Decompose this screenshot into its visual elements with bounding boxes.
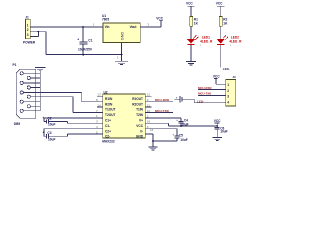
- svg-text:MCU-TXD: MCU-TXD: [155, 109, 170, 113]
- svg-text:P1: P1: [13, 63, 17, 67]
- svg-text:1: 1: [227, 83, 229, 87]
- svg-text:11: 11: [147, 104, 150, 108]
- svg-text:C5: C5: [179, 133, 183, 137]
- svg-text:C2: C2: [47, 116, 51, 120]
- svg-text:U2: U2: [104, 90, 108, 94]
- svg-text:T1OUT: T1OUT: [105, 108, 116, 112]
- svg-text:10uF: 10uF: [181, 123, 188, 127]
- svg-text:3: 3: [227, 95, 229, 99]
- svg-text:10uF/25V: 10uF/25V: [78, 48, 93, 52]
- svg-text:13: 13: [97, 93, 101, 97]
- svg-text:MAX232: MAX232: [102, 140, 115, 144]
- svg-text:1K: 1K: [223, 21, 228, 25]
- svg-text:POWER: POWER: [23, 41, 36, 45]
- svg-text:2: 2: [227, 89, 229, 93]
- svg-text:16: 16: [147, 120, 151, 124]
- svg-text:+: +: [43, 116, 45, 120]
- svg-text:V+: V+: [139, 119, 143, 123]
- svg-text:10: 10: [147, 109, 151, 113]
- svg-text:C4: C4: [184, 118, 188, 122]
- svg-text:10uF: 10uF: [48, 122, 55, 126]
- svg-text:T2OUT: T2OUT: [105, 113, 116, 117]
- svg-text:J3: J3: [232, 75, 236, 79]
- svg-text:R1IN: R1IN: [105, 97, 113, 101]
- svg-text:10uF: 10uF: [220, 129, 227, 133]
- svg-text:3: 3: [27, 33, 29, 37]
- svg-text:T2IN: T2IN: [136, 113, 144, 117]
- svg-text:LED-: LED-: [223, 67, 230, 71]
- svg-text:C2-: C2-: [105, 135, 110, 139]
- svg-text:MCU-TXD: MCU-TXD: [198, 92, 211, 96]
- svg-text:DB9: DB9: [14, 122, 21, 126]
- svg-text:4: 4: [227, 100, 229, 104]
- svg-text:Vout: Vout: [130, 25, 138, 29]
- svg-text:7805: 7805: [102, 18, 109, 22]
- svg-text:+: +: [43, 131, 45, 135]
- svg-text:C1-: C1-: [105, 124, 110, 128]
- svg-text:4LED_R: 4LED_R: [229, 40, 242, 44]
- svg-text:2: 2: [27, 28, 29, 32]
- svg-text:14: 14: [97, 103, 101, 107]
- svg-text:VCC: VCC: [216, 2, 223, 6]
- svg-text:4LED_R: 4LED_R: [200, 40, 213, 44]
- svg-text:T1IN: T1IN: [136, 108, 144, 112]
- svg-text:GND: GND: [136, 135, 144, 139]
- svg-text:1K: 1K: [194, 21, 199, 25]
- svg-text:+: +: [77, 38, 79, 42]
- svg-text:R2OUT: R2OUT: [132, 102, 143, 106]
- svg-text:MCU-RXD: MCU-RXD: [198, 86, 211, 90]
- svg-text:10uF: 10uF: [48, 137, 55, 141]
- svg-text:Vin: Vin: [105, 25, 110, 29]
- svg-text:MCU-RXD: MCU-RXD: [155, 98, 170, 102]
- svg-text:R2IN: R2IN: [105, 102, 113, 106]
- svg-text:VCC: VCC: [186, 2, 193, 6]
- svg-text:VCC: VCC: [213, 74, 220, 78]
- svg-text:1: 1: [27, 24, 29, 28]
- svg-text:C1+: C1+: [105, 119, 111, 123]
- svg-text:J1: J1: [25, 15, 29, 19]
- svg-text:V-: V-: [140, 129, 143, 133]
- svg-text:GND: GND: [120, 32, 124, 41]
- svg-text:15: 15: [150, 128, 154, 132]
- svg-text:12: 12: [147, 93, 151, 97]
- svg-text:LED-: LED-: [197, 99, 204, 103]
- svg-text:R1OUT: R1OUT: [132, 97, 143, 101]
- svg-text:C3: C3: [47, 131, 51, 135]
- svg-text:C1: C1: [88, 39, 92, 43]
- svg-text:10uF: 10uF: [180, 138, 187, 142]
- svg-text:VCC: VCC: [156, 16, 163, 20]
- svg-text:VCC: VCC: [214, 119, 221, 123]
- svg-text:VCC: VCC: [136, 124, 143, 128]
- svg-text:C2+: C2+: [105, 129, 111, 133]
